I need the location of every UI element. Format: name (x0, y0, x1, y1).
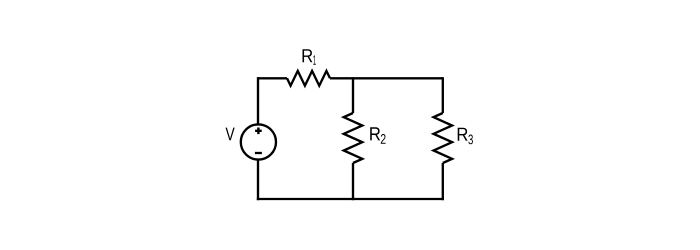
wire top-right (R1 to right corner, through node) (330, 77, 443, 79)
wire left lower (source to bottom rail) (257, 160, 259, 201)
wire top-left (source top to R1) (258, 77, 287, 79)
voltage source V circle (241, 124, 276, 159)
wire middle branch upper (node to R2) (352, 77, 354, 113)
wire bottom rail (257, 198, 444, 200)
wire right branch lower (R3 to bottom rail) (442, 163, 444, 200)
resistor R2 (344, 113, 363, 163)
wire middle branch lower (R2 to bottom rail) (352, 163, 354, 200)
label R3 letter R (458, 128, 468, 141)
wire right branch upper (top rail to R3) (442, 77, 444, 113)
label R1 letter R (303, 49, 313, 62)
label R3 subscript 3 (468, 135, 473, 145)
resistor R3 (434, 113, 453, 163)
label R2 subscript 2 (381, 134, 386, 144)
minus sign (255, 152, 262, 154)
label V (source) (226, 128, 235, 141)
plus sign (255, 128, 262, 135)
label R2 letter R (370, 127, 380, 140)
resistor R1 (287, 71, 330, 86)
label R1 subscript 1 (313, 55, 316, 64)
wire left upper (top rail to source) (257, 77, 259, 124)
